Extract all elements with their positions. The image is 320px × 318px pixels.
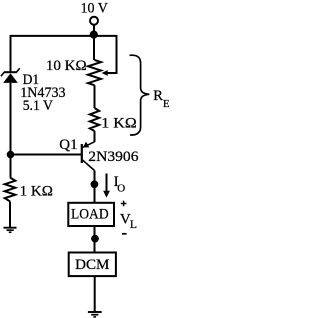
wire DCM to ground xyxy=(94,276,96,312)
label minus xyxy=(122,233,127,235)
resistor 1 KΩ (emitter) xyxy=(90,108,99,131)
wire resistor to ground xyxy=(9,201,11,227)
svg-text:10 V: 10 V xyxy=(81,1,108,17)
zener right tail xyxy=(16,68,19,72)
svg-text:O: O xyxy=(117,182,125,194)
transistor Q1 emitter lead xyxy=(83,142,95,148)
zener diode D1 anode triangle xyxy=(3,73,18,83)
wire top rail xyxy=(11,35,117,37)
wire base xyxy=(11,154,82,156)
potentiometer 10 KΩ xyxy=(88,60,101,85)
svg-text:Q1: Q1 xyxy=(59,137,77,153)
wire zener to base junction xyxy=(10,83,12,178)
svg-text:1 KΩ: 1 KΩ xyxy=(101,116,136,132)
svg-text:LOAD: LOAD xyxy=(71,207,109,223)
wire terminal to rail xyxy=(93,25,95,36)
wire potentiometer to emitter resistor xyxy=(94,85,96,108)
wire collector down to LOAD xyxy=(94,171,96,204)
svg-text:1 KΩ: 1 KΩ xyxy=(20,183,53,199)
transistor Q1 base bar xyxy=(81,144,83,163)
junction dot collector node xyxy=(91,180,99,188)
resistor 1 KΩ (base, lower left) xyxy=(5,178,16,202)
transistor Q1 emitter arrowhead (PNP) xyxy=(83,142,90,148)
junction dot load node xyxy=(91,235,99,243)
svg-text:E: E xyxy=(163,98,169,110)
label plus xyxy=(121,203,127,205)
wiper arrowhead xyxy=(102,70,108,76)
svg-text:L: L xyxy=(130,219,137,231)
zener diode D1 cathode bar xyxy=(4,71,17,73)
node 10V supply terminal xyxy=(90,17,98,25)
junction dot base node xyxy=(7,151,15,159)
svg-text:2N3906: 2N3906 xyxy=(88,149,139,165)
svg-text:R: R xyxy=(153,88,163,104)
ground (left) xyxy=(4,228,17,233)
ground (bottom) xyxy=(88,312,102,317)
wire potentiometer wiper branch xyxy=(105,35,117,73)
brace R_E xyxy=(130,55,150,135)
zener left tail xyxy=(1,72,4,76)
svg-text:DCM: DCM xyxy=(75,257,109,273)
wire left rail down to zener xyxy=(10,35,12,72)
svg-text:10 KΩ: 10 KΩ xyxy=(46,58,87,74)
transistor Q1 collector lead xyxy=(83,160,95,171)
load box xyxy=(68,203,114,226)
current arrow I_O xyxy=(106,174,108,193)
wire LOAD to DCM xyxy=(94,226,96,253)
junction dot top xyxy=(90,30,98,38)
DCM box xyxy=(69,253,116,277)
svg-text:5.1 V: 5.1 V xyxy=(23,98,53,114)
wire rail to potentiometer xyxy=(93,36,95,60)
wire emitter resistor to Q1 emitter xyxy=(94,131,96,142)
